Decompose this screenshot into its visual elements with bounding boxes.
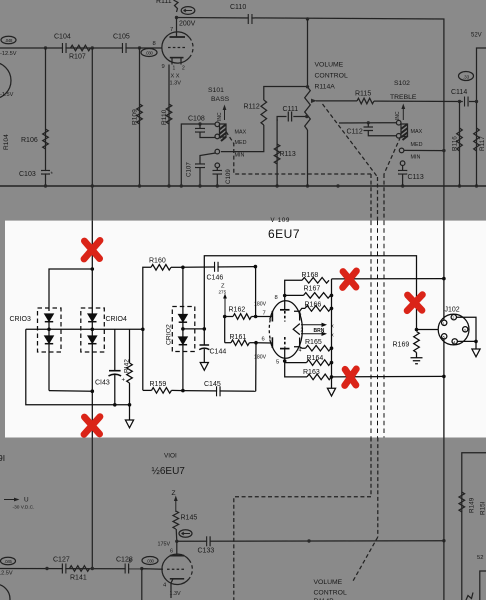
svg-text:R15I: R15I <box>480 501 486 515</box>
svg-text:7: 7 <box>170 27 173 33</box>
svg-text:INC: INC <box>395 111 401 120</box>
wire dashed routing below box <box>234 438 378 600</box>
svg-text:.33: .33 <box>463 74 470 79</box>
svg-text:275: 275 <box>219 290 227 295</box>
svg-text:R160: R160 <box>149 258 166 265</box>
svg-text:2: 2 <box>452 316 454 320</box>
wire plate line to C133 and output bus <box>177 540 444 543</box>
resistor R117 <box>476 102 478 187</box>
svg-text:CRIO3: CRIO3 <box>10 316 32 323</box>
tube V101 cathode <box>170 578 184 580</box>
wire plate supply run to J102 column <box>204 256 416 330</box>
diode pair CR102 <box>182 267 184 390</box>
svg-text:R115: R115 <box>355 91 371 98</box>
resistor R169 <box>415 328 419 332</box>
node oval 030 <box>142 557 158 565</box>
wire corner lower right <box>480 571 486 600</box>
wire C146 branch <box>183 266 256 269</box>
svg-text:C112: C112 <box>347 129 363 136</box>
tube (partial, bottom left corner) <box>0 584 10 600</box>
svg-text:MED: MED <box>411 142 423 148</box>
wire S102 MED to output feed <box>404 149 444 151</box>
resistor R115 <box>316 100 357 102</box>
capacitor C103 <box>41 170 50 172</box>
svg-text:C103: C103 <box>19 171 36 178</box>
svg-text:R161: R161 <box>230 334 247 341</box>
svg-text:1.3V: 1.3V <box>170 81 182 87</box>
svg-text:C114: C114 <box>451 89 467 96</box>
svg-text:R164: R164 <box>307 355 324 362</box>
svg-text:9: 9 <box>299 313 302 319</box>
svg-text:R106: R106 <box>21 137 38 144</box>
svg-text:J102: J102 <box>445 307 460 314</box>
capacitor C109 <box>216 168 218 171</box>
svg-text:4: 4 <box>299 348 302 354</box>
resistor R161 <box>224 317 226 343</box>
ground (triangle) <box>472 349 480 357</box>
capacitor C145 <box>183 390 256 393</box>
resistor R142 <box>129 329 131 363</box>
capacitor C113 <box>402 166 404 171</box>
svg-text:V 109: V 109 <box>271 218 291 224</box>
resistor R159 <box>143 389 152 391</box>
capacitor C107 <box>200 153 216 164</box>
svg-text:BASS: BASS <box>211 96 230 103</box>
wire right resistor rail <box>331 279 333 388</box>
tube V102 cathode <box>170 57 184 59</box>
svg-text:2: 2 <box>182 66 185 72</box>
tube V109 internal elements <box>284 311 286 322</box>
resistor R109 <box>139 48 141 186</box>
svg-text:U: U <box>24 497 29 504</box>
svg-text:-12.5V: -12.5V <box>0 51 17 57</box>
svg-text:CONTROL: CONTROL <box>315 73 348 80</box>
svg-text:4: 4 <box>453 340 455 344</box>
resistor R141 <box>70 566 90 572</box>
svg-text:180V: 180V <box>254 355 267 361</box>
resistor R107 <box>71 45 91 51</box>
svg-text:C144: C144 <box>210 349 227 356</box>
svg-text:C133: C133 <box>198 548 215 555</box>
svg-text:R168: R168 <box>302 272 319 279</box>
svg-text:C109: C109 <box>225 169 232 184</box>
tube V109 envelope (left arc dashed) <box>269 301 303 359</box>
capacitor C144 <box>203 329 205 345</box>
svg-text:R141: R141 <box>70 575 87 582</box>
svg-text:+: + <box>122 378 126 384</box>
svg-text:C146: C146 <box>207 275 224 282</box>
ground (triangle) <box>327 388 335 396</box>
svg-text:R111: R111 <box>156 0 172 5</box>
svg-text:R163: R163 <box>303 369 320 376</box>
svg-text:7: 7 <box>263 311 266 317</box>
svg-text:52: 52 <box>477 555 483 561</box>
wire shielded routing (dashed) from S102 wiper <box>384 137 401 174</box>
svg-text:R110: R110 <box>161 109 168 125</box>
potentiometer R114A volume control <box>306 17 309 20</box>
resistor R110 <box>168 65 170 187</box>
tube V109 pin 9 plate bracket <box>294 311 300 320</box>
svg-text:R167: R167 <box>304 286 321 293</box>
svg-text:180V: 180V <box>254 302 267 308</box>
wire ground bus <box>0 185 486 187</box>
svg-text:.045: .045 <box>4 559 12 564</box>
svg-text:R112: R112 <box>244 104 260 111</box>
svg-text:.048: .048 <box>5 38 13 43</box>
node junction R109 top <box>138 46 141 49</box>
svg-text:C105: C105 <box>113 34 130 41</box>
svg-text:R117: R117 <box>479 136 486 151</box>
node junction <box>45 567 48 570</box>
capacitor C146 <box>214 262 216 272</box>
wire long vertical feed below bus (gray part above white box) <box>443 186 445 221</box>
svg-text:R109: R109 <box>132 109 139 125</box>
svg-text:CI43: CI43 <box>95 380 110 387</box>
resistor R160 <box>143 267 151 390</box>
svg-text:6: 6 <box>170 549 173 555</box>
node deleted mark X3 <box>343 271 357 288</box>
wire CR102 mid tap <box>183 328 204 330</box>
tube V109 pin 4 bracket <box>294 338 300 347</box>
svg-text:-30 V.D.C.: -30 V.D.C. <box>13 505 35 511</box>
svg-text:CONTROL: CONTROL <box>314 590 347 597</box>
node junction <box>91 46 94 49</box>
wire right stage rail <box>462 453 486 600</box>
svg-text:R113: R113 <box>280 151 296 158</box>
svg-text:R169: R169 <box>393 342 410 349</box>
node test-point oval 8 at 200V <box>181 7 195 15</box>
svg-text:8: 8 <box>129 559 132 565</box>
node deleted mark X4 <box>345 369 357 386</box>
svg-text:MED: MED <box>235 140 247 146</box>
capacitor C143 <box>114 329 116 370</box>
wire J102 shield to ground <box>457 317 477 341</box>
tube V109 grid pin 7 <box>271 311 273 322</box>
node U -30V.D.C. <box>4 499 15 501</box>
svg-text:6EU7: 6EU7 <box>268 227 300 241</box>
node oval 030 <box>141 49 157 57</box>
svg-text:175V: 175V <box>158 542 171 548</box>
svg-text:8: 8 <box>153 41 156 47</box>
svg-text:3: 3 <box>464 328 466 332</box>
wire bias mid rail <box>26 328 143 330</box>
svg-text:5: 5 <box>276 360 279 366</box>
svg-text:9: 9 <box>162 64 165 70</box>
resistor R165 <box>300 347 306 348</box>
white overlay figure <box>5 221 486 438</box>
wire AF input line <box>0 568 163 570</box>
node oval 33 <box>459 72 474 81</box>
svg-text:S101: S101 <box>208 87 224 94</box>
svg-text:½6EU7: ½6EU7 <box>152 466 186 477</box>
svg-text:R166: R166 <box>305 302 322 309</box>
svg-text:VOLUME: VOLUME <box>314 579 343 586</box>
wire long vertical output feed <box>443 438 445 600</box>
resistor R167 <box>285 294 304 296</box>
svg-text:12.5V: 12.5V <box>0 571 13 577</box>
ground (earth bars) <box>411 358 423 364</box>
svg-text:C110: C110 <box>230 4 246 11</box>
wire shielded routing (dashed) from volume wiper <box>323 104 378 177</box>
svg-text:52V: 52V <box>471 33 482 39</box>
svg-text:C108: C108 <box>188 116 205 123</box>
wire to J102 <box>417 329 439 331</box>
wire grid 6 <box>256 342 272 344</box>
svg-text:R116: R116 <box>452 136 459 151</box>
node oval 048 <box>1 36 16 44</box>
tube V109 pin 2 shield arrow BRN <box>293 324 300 335</box>
svg-text:CRIO2: CRIO2 <box>166 324 173 345</box>
resistor R149 <box>459 492 465 512</box>
svg-text:C113: C113 <box>408 174 424 181</box>
svg-text:TREBLE: TREBLE <box>390 94 417 101</box>
svg-text:200V: 200V <box>179 21 196 28</box>
svg-text:INC: INC <box>217 112 223 121</box>
svg-text:VOLUME: VOLUME <box>315 62 344 69</box>
wire shielded routing (dashed) from S101 wiper <box>226 104 401 221</box>
diode pair CR103 <box>38 308 62 352</box>
resistor R168 <box>285 280 302 295</box>
wire dashed drops into white box <box>370 174 372 221</box>
resistor R166 <box>300 308 305 311</box>
svg-text:VIOI: VIOI <box>164 453 177 460</box>
wire grid 7 <box>256 316 272 318</box>
svg-text:X X: X X <box>171 74 180 80</box>
wire CR103 top link <box>49 269 92 311</box>
tube V109 grid pin 6 <box>271 337 273 348</box>
wire long vertical output feed (in box) <box>443 221 445 321</box>
wire top output run <box>332 278 444 280</box>
resistor R145 <box>173 511 179 529</box>
svg-text:MAX: MAX <box>411 129 423 135</box>
svg-text:.030: .030 <box>146 559 154 564</box>
svg-text:R149: R149 <box>469 497 476 513</box>
svg-text:1.3V: 1.3V <box>170 591 181 597</box>
svg-text:R159: R159 <box>150 381 167 388</box>
svg-text:CRIO4: CRIO4 <box>106 316 128 323</box>
node deleted mark X1 <box>84 240 100 259</box>
node deleted mark X2 <box>84 417 100 435</box>
tube V102 envelope (right arc dashed) <box>162 32 190 63</box>
wire main vertical (plate feed) through box <box>91 221 93 438</box>
wire coupling drop from white box to AF line <box>91 438 93 569</box>
resistor R162 <box>223 315 227 319</box>
svg-text:R162: R162 <box>229 307 246 314</box>
ground (triangle) <box>200 363 208 371</box>
node junction grid drop <box>140 567 143 570</box>
tube V102 grid <box>168 47 185 49</box>
svg-text:R104: R104 <box>3 134 10 150</box>
wire B+ rail from R111 to volume control and S102 feed <box>177 18 444 187</box>
resistor R164 <box>285 362 307 364</box>
wire bottom output run <box>332 375 444 378</box>
tube (partial, left edge) <box>0 62 11 99</box>
svg-text:RI42: RI42 <box>124 359 131 373</box>
svg-text:S102: S102 <box>394 80 410 87</box>
tube V102 plate <box>176 18 178 38</box>
svg-text:-1.5V: -1.5V <box>0 92 14 98</box>
node bus junctions <box>44 184 478 187</box>
svg-text:MAX: MAX <box>235 130 247 136</box>
svg-text:1: 1 <box>443 322 445 326</box>
resistor R113 <box>276 119 278 186</box>
svg-text:C145: C145 <box>204 381 221 388</box>
resistor R116 <box>459 102 461 187</box>
wire drop to lower stage <box>141 569 143 600</box>
resistor R112 <box>221 125 264 152</box>
svg-text:R114A: R114A <box>315 84 336 91</box>
svg-text:6: 6 <box>262 337 265 343</box>
svg-text:MIN: MIN <box>411 155 421 161</box>
svg-text:R165: R165 <box>305 339 322 346</box>
svg-text:1: 1 <box>173 66 176 72</box>
resistor fragment lower right <box>466 593 473 600</box>
capacitor C133 <box>206 536 208 546</box>
svg-text:R145: R145 <box>181 515 198 522</box>
svg-text:2: 2 <box>301 328 304 334</box>
wire grid input line y=48 <box>0 47 162 49</box>
node test-point oval 8 <box>179 530 192 538</box>
tube V101 plate <box>176 541 178 555</box>
wire coupling drop to bus (gray, above white box) <box>91 48 93 221</box>
wire S101 MAX feed <box>181 124 215 186</box>
wire left return loop <box>26 329 130 405</box>
svg-text:Z: Z <box>172 490 176 497</box>
svg-text:C111: C111 <box>283 106 299 113</box>
capacitor C112 <box>339 122 396 124</box>
wire C145 riser <box>255 343 257 392</box>
wire dashed routing through box <box>371 221 384 438</box>
junction plate node V102 <box>175 16 178 19</box>
diode pair CR104 <box>81 308 105 352</box>
resistor R163 <box>285 361 307 377</box>
svg-text:5: 5 <box>443 335 445 339</box>
wire CR103 bottom link <box>49 390 92 393</box>
svg-text:MIN: MIN <box>235 153 245 159</box>
tube V101 grid <box>142 568 163 571</box>
svg-text:8: 8 <box>275 295 278 301</box>
svg-text:C127: C127 <box>53 557 70 564</box>
svg-text:9I: 9I <box>0 453 5 463</box>
tube V101 envelope (right arc dashed) <box>162 554 189 584</box>
svg-text:C107: C107 <box>186 162 193 177</box>
resistor R106 <box>44 46 47 49</box>
svg-text:R107: R107 <box>69 54 86 61</box>
node deleted mark X5 <box>407 295 422 311</box>
svg-text:BRN: BRN <box>314 328 325 334</box>
svg-text:C104: C104 <box>54 34 71 41</box>
ground (triangle) <box>125 420 133 428</box>
wire 52V feed <box>469 48 486 102</box>
svg-text:.030: .030 <box>145 51 153 56</box>
node oval 045 <box>1 557 16 565</box>
